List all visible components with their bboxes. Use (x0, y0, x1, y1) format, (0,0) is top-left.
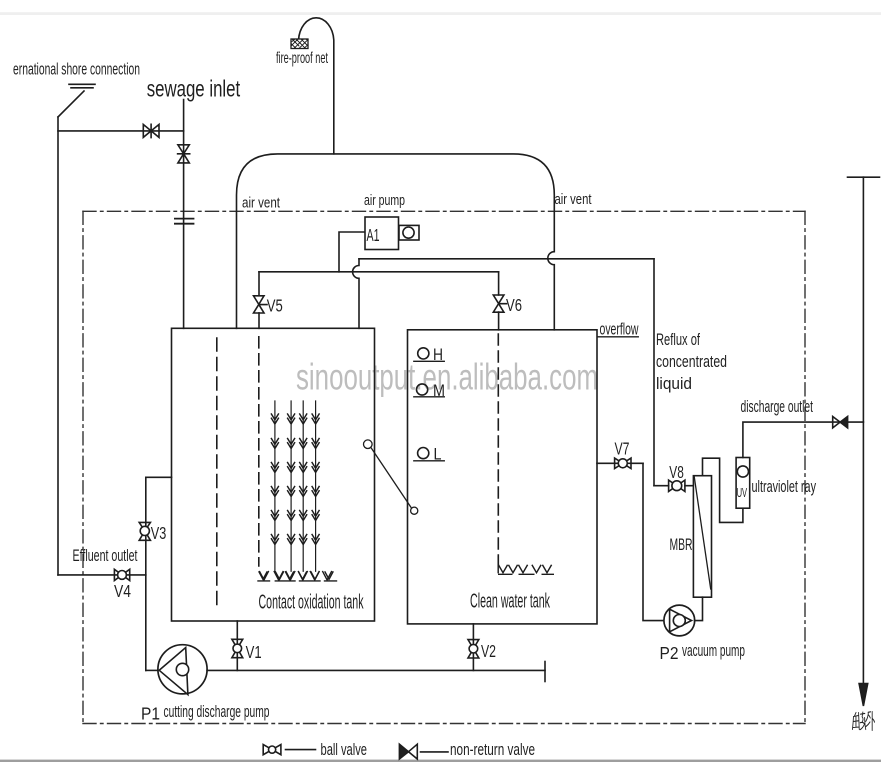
svg-text:overflow: overflow (600, 320, 639, 339)
svg-text:ball valve: ball valve (321, 740, 368, 759)
svg-text:A1: A1 (367, 225, 380, 245)
svg-text:ultraviolet ray: ultraviolet ray (752, 477, 817, 496)
svg-text:discharge outlet: discharge outlet (741, 397, 814, 416)
svg-text:fire-proof net: fire-proof net (276, 50, 328, 67)
svg-text:ernational shore connection: ernational shore connection (13, 60, 140, 79)
svg-text:V6: V6 (506, 295, 522, 315)
svg-text:V7: V7 (615, 439, 630, 459)
svg-text:V3: V3 (151, 523, 167, 543)
svg-text:liquid: liquid (656, 374, 692, 393)
svg-text:V1: V1 (246, 642, 262, 662)
svg-text:concentrated: concentrated (656, 352, 727, 371)
svg-text:Clean water tank: Clean water tank (470, 591, 551, 613)
svg-text:V5: V5 (267, 295, 283, 315)
svg-text:non-return valve: non-return valve (450, 740, 535, 759)
svg-text:P2: P2 (660, 643, 679, 663)
svg-text:cutting discharge pump: cutting discharge pump (164, 703, 270, 721)
svg-text:sinooutput.en.alibaba.com: sinooutput.en.alibaba.com (296, 357, 598, 398)
svg-text:V4: V4 (114, 581, 131, 601)
svg-text:Reflux of: Reflux of (656, 330, 700, 349)
svg-text:UV: UV (737, 486, 748, 500)
svg-text:air vent: air vent (242, 195, 281, 212)
svg-text:M: M (433, 381, 445, 400)
svg-text:V8: V8 (669, 462, 684, 482)
svg-text:Effluent outlet: Effluent outlet (73, 546, 138, 565)
svg-text:air pump: air pump (364, 192, 405, 209)
svg-text:L: L (434, 445, 442, 464)
svg-text:Contact oxidation tank: Contact oxidation tank (259, 592, 365, 614)
svg-text:H: H (433, 345, 443, 364)
svg-text:air vent: air vent (555, 191, 593, 208)
svg-text:V2: V2 (481, 641, 496, 661)
svg-text:MBR: MBR (670, 535, 693, 554)
svg-text:sewage inlet: sewage inlet (147, 76, 241, 102)
svg-text:vacuum pump: vacuum pump (682, 642, 745, 660)
svg-text:P1: P1 (141, 704, 160, 724)
